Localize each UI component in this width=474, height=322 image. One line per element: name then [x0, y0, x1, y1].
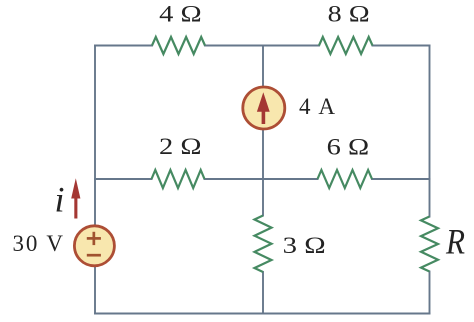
svg-text:2 Ω: 2 Ω [159, 134, 202, 159]
svg-text:6 Ω: 6 Ω [327, 135, 370, 160]
svg-text:i: i [55, 180, 65, 220]
svg-text:8 Ω: 8 Ω [328, 2, 370, 27]
svg-text:3 Ω: 3 Ω [283, 233, 326, 258]
svg-text:4 Ω: 4 Ω [159, 2, 202, 27]
svg-text:R: R [445, 222, 465, 262]
svg-text:30 V: 30 V [13, 231, 64, 256]
svg-text:4 A: 4 A [299, 94, 335, 119]
